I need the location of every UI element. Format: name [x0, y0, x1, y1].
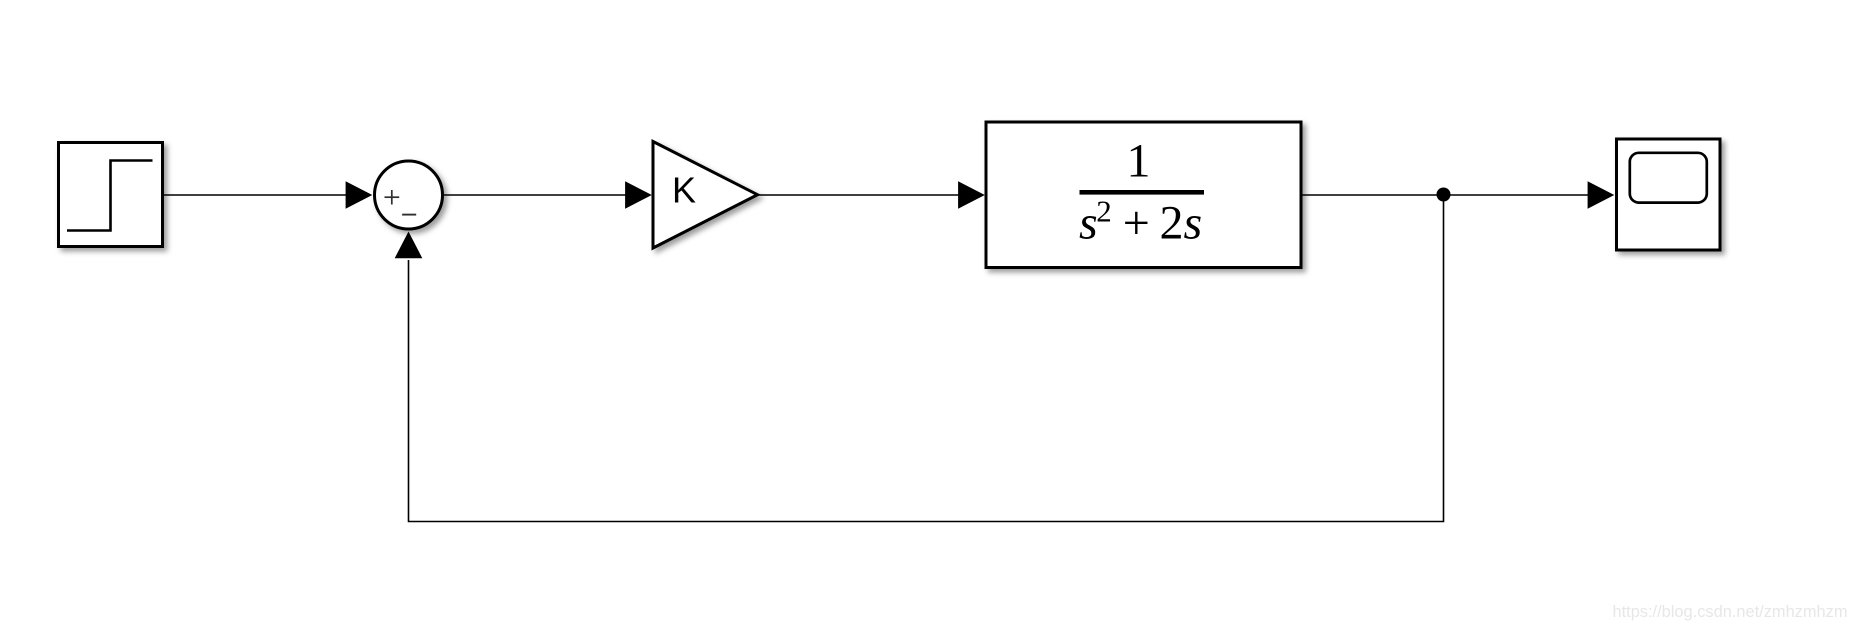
- arrowhead into transfer fn: [958, 181, 985, 209]
- svg-text:https://blog.csdn.net/zmhzmhzm: https://blog.csdn.net/zmhzmhzm: [1612, 603, 1847, 621]
- feedback wire: [409, 195, 1444, 522]
- svg-text:K: K: [672, 170, 696, 211]
- arrowhead into sum: [346, 181, 373, 209]
- arrowhead into scope: [1588, 181, 1615, 209]
- arrowhead into gain: [625, 181, 652, 209]
- step block Step: [59, 143, 163, 247]
- fraction bar: [1080, 190, 1205, 195]
- junction node dot: [1437, 188, 1451, 202]
- transfer function block 1/(s^2+2s): [986, 122, 1301, 268]
- plus sign: [385, 190, 400, 205]
- step symbol: [67, 161, 153, 231]
- svg-text:1: 1: [1127, 135, 1151, 188]
- wire: gain to transfer fn: [757, 194, 961, 196]
- svg-text:s2 + 2s: s2 + 2s: [1079, 194, 1202, 250]
- gain block K: [653, 142, 758, 249]
- minus sign: [402, 214, 416, 216]
- wire: step to sum: [164, 194, 350, 196]
- scope screen: [1630, 153, 1707, 203]
- wire: transfer fn to scope: [1302, 194, 1591, 196]
- scope block: [1617, 139, 1721, 250]
- wire: sum to gain: [443, 194, 628, 196]
- sum block: [375, 161, 443, 229]
- arrowhead into sum bottom: [395, 232, 423, 259]
